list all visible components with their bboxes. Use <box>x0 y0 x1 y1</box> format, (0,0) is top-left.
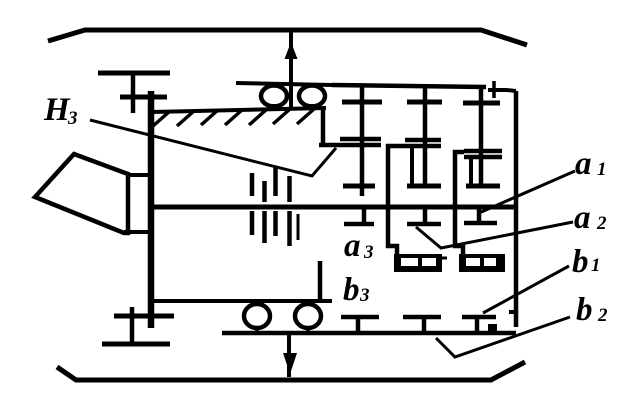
svg-text:b: b <box>576 292 593 328</box>
svg-text:1: 1 <box>591 255 601 276</box>
svg-text:H: H <box>43 92 71 128</box>
svg-text:b: b <box>343 272 360 308</box>
svg-text:a: a <box>574 200 591 236</box>
svg-text:3: 3 <box>359 285 370 306</box>
svg-text:2: 2 <box>597 305 608 326</box>
svg-text:1: 1 <box>597 159 607 180</box>
svg-text:a: a <box>344 228 361 264</box>
svg-text:3: 3 <box>363 242 374 263</box>
svg-text:3: 3 <box>67 108 78 129</box>
svg-text:a: a <box>575 146 592 182</box>
svg-text:b: b <box>572 244 589 280</box>
svg-text:2: 2 <box>596 213 607 234</box>
